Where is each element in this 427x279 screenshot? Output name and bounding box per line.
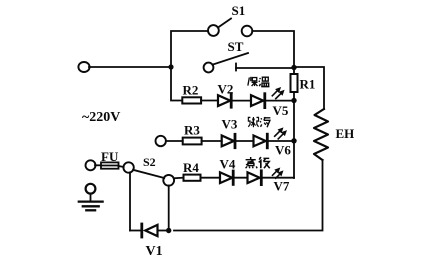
LED V6 [254,134,295,148]
wire left vertical branch [171,31,208,67]
node junction A [291,65,296,70]
resistor R2 [182,97,218,103]
resistor R4 [174,175,220,181]
svg-text:FU: FU [101,149,119,164]
label keep-warm (baowen) [248,77,270,87]
switch S2 [123,162,174,185]
wire EH bottom to bottom rail [174,160,323,231]
LED V7 [248,171,295,185]
LED V5 arrows [272,87,284,99]
LED V6 arrows [275,127,287,138]
svg-text:~220V: ~220V [82,110,120,125]
terminal bottom input [86,160,96,170]
svg-text:V2: V2 [218,82,234,97]
wire left vertical down to R2 row [171,67,182,101]
wire S1 to right vertical [252,31,294,67]
terminal middle input [156,136,166,146]
diode V4 [220,171,248,184]
heater EH [314,109,328,160]
node junction left [168,64,173,69]
svg-text:V5: V5 [273,103,289,118]
resistor R3 [166,138,222,145]
svg-text:R2: R2 [183,83,199,98]
svg-text:R1: R1 [300,77,316,92]
wire V1 up to S2 [129,173,131,231]
svg-text:S1: S1 [232,3,246,18]
svg-text:V7: V7 [274,179,290,194]
fuse FU [95,162,124,168]
switch ST [204,53,248,72]
LED V5 [251,94,294,108]
terminal top input [78,62,89,72]
svg-text:R4: R4 [183,160,199,175]
svg-text:V4: V4 [220,157,236,172]
label cook-rice (zhufan) [246,157,270,168]
switch S1 [208,19,252,37]
node bottom junction [166,228,171,233]
wire EH branch top [294,67,324,109]
LED V7 arrows [273,168,284,179]
node junction B [291,98,296,103]
wire input to junction [89,66,171,68]
diode V3 [222,134,254,147]
ground [79,184,103,211]
node V6 row junction [291,138,296,143]
resistor R1 [291,67,298,100]
label porridge (zhoutang) [248,117,270,127]
wire ST contact to junction A [236,67,294,69]
wire main vertical [293,101,295,179]
diode V2 [218,94,251,107]
svg-text:R3: R3 [184,123,200,138]
wire S2 down to V1 junction [168,186,170,231]
diode V1 [130,224,169,237]
svg-text:ST: ST [228,39,244,54]
svg-text:V6: V6 [275,143,291,158]
svg-text:EH: EH [336,126,355,141]
svg-text:V1: V1 [146,244,163,259]
svg-text:S2: S2 [143,155,156,169]
svg-text:V3: V3 [222,117,238,132]
